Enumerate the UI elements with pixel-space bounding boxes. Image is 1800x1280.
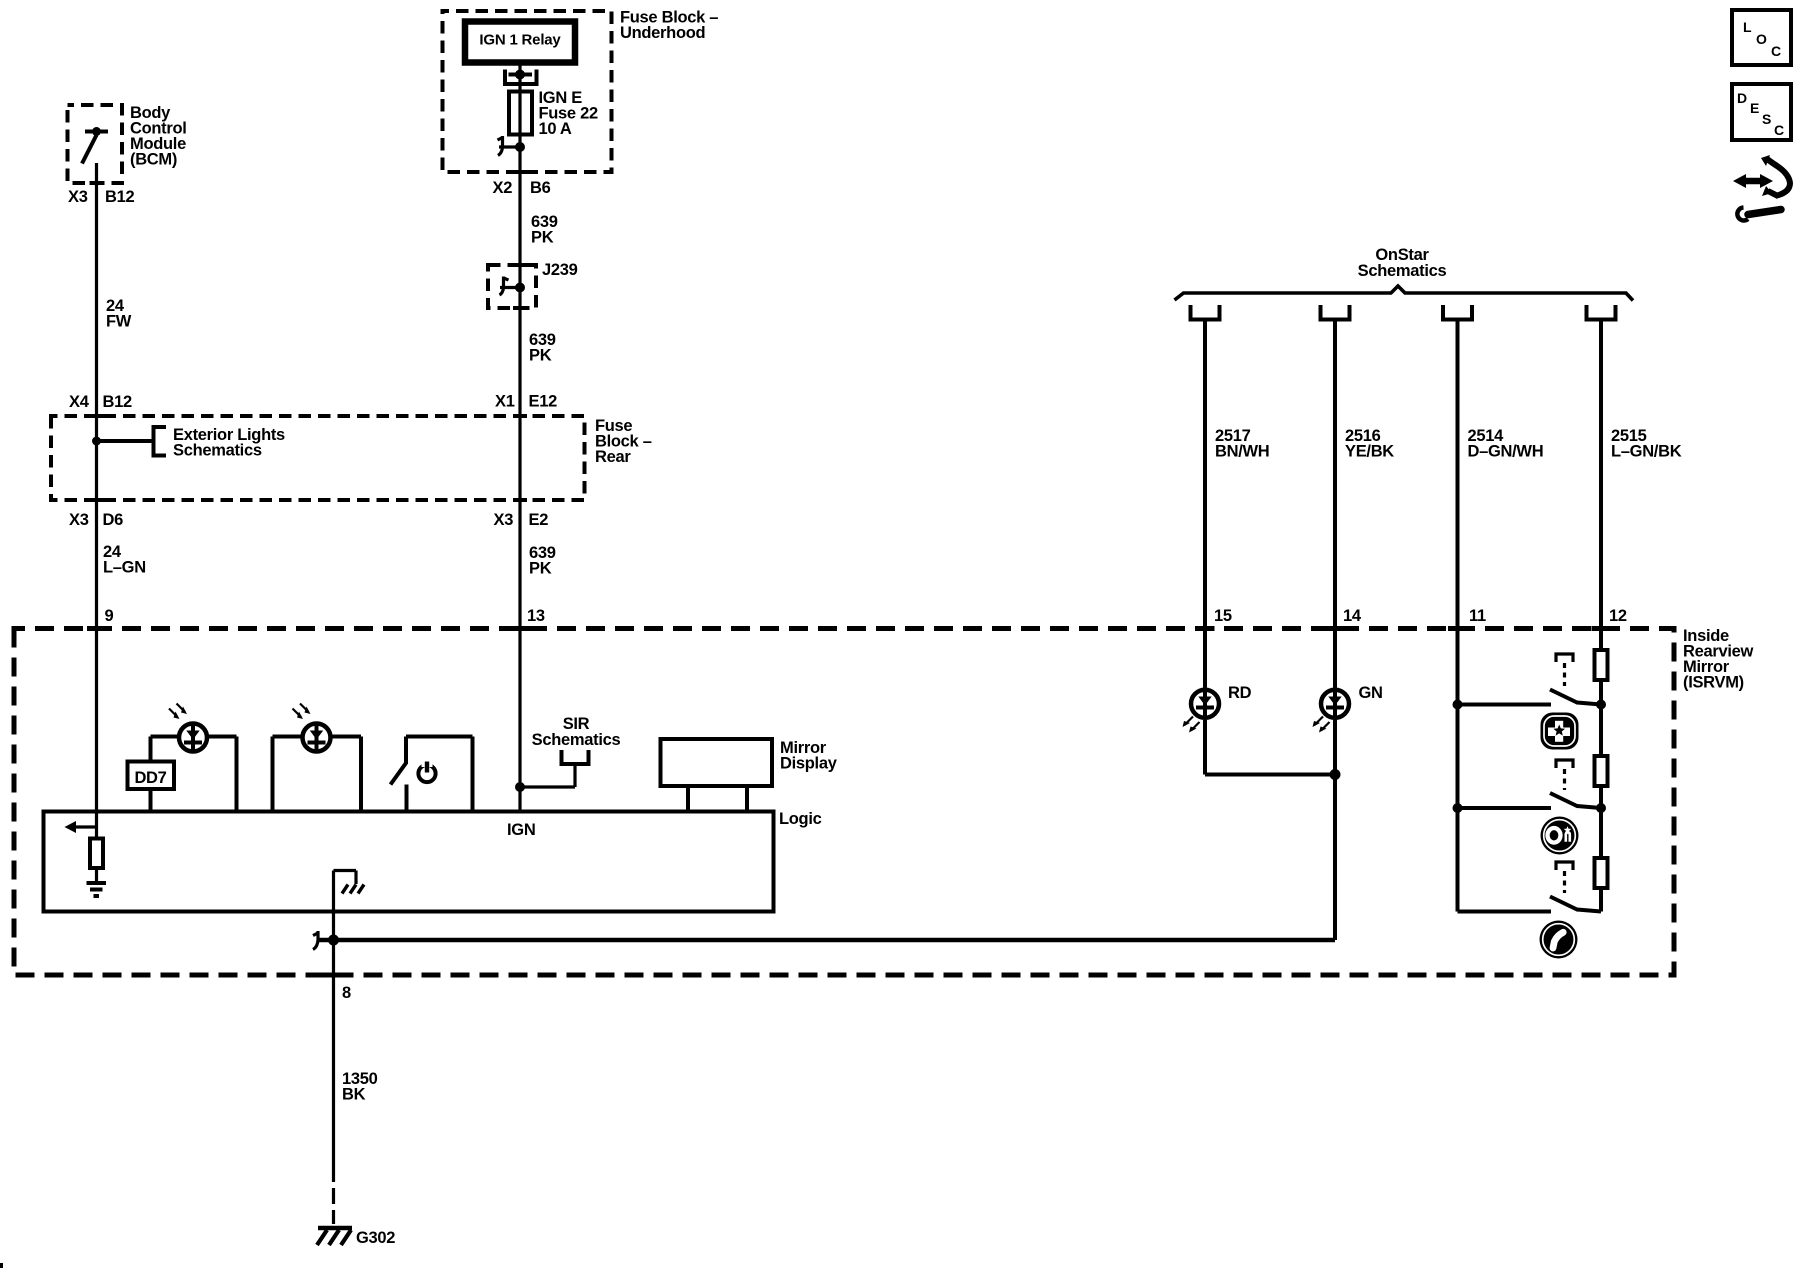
svg-text:Schematics: Schematics — [1358, 262, 1447, 280]
svg-text:BN/WH: BN/WH — [1215, 443, 1269, 461]
svg-text:G302: G302 — [356, 1229, 395, 1247]
svg-text:B12: B12 — [103, 393, 132, 411]
svg-text:L–GN: L–GN — [103, 559, 146, 577]
svg-text:11: 11 — [1469, 607, 1486, 625]
svg-text:X3: X3 — [68, 188, 88, 206]
svg-text:PK: PK — [529, 560, 552, 578]
svg-text:S: S — [1762, 111, 1771, 127]
svg-text:O: O — [1756, 31, 1767, 47]
svg-text:Rear: Rear — [595, 448, 631, 466]
svg-text:X3: X3 — [494, 511, 514, 529]
svg-text:BK: BK — [342, 1086, 366, 1104]
svg-text:12: 12 — [1609, 607, 1627, 625]
svg-text:D–GN/WH: D–GN/WH — [1468, 443, 1544, 461]
svg-text:PK: PK — [529, 347, 552, 365]
svg-text:(BCM): (BCM) — [130, 151, 177, 169]
svg-text:YE/BK: YE/BK — [1345, 443, 1394, 461]
svg-text:IGN 1 Relay: IGN 1 Relay — [479, 32, 561, 49]
svg-text:D: D — [1737, 90, 1747, 106]
svg-text:Schematics: Schematics — [532, 731, 621, 749]
svg-text:DD7: DD7 — [134, 769, 166, 787]
svg-text:9: 9 — [105, 607, 114, 625]
svg-text:C: C — [1771, 43, 1781, 59]
svg-text:B6: B6 — [530, 179, 551, 197]
svg-text:X2: X2 — [493, 179, 513, 197]
svg-text:Display: Display — [780, 755, 838, 773]
svg-text:PK: PK — [531, 229, 554, 247]
svg-text:X3: X3 — [69, 511, 89, 529]
svg-text:(ISRVM): (ISRVM) — [1683, 674, 1744, 692]
svg-text:J239: J239 — [542, 261, 578, 279]
svg-text:B12: B12 — [105, 188, 134, 206]
svg-text:GN: GN — [1359, 684, 1383, 702]
svg-text:13: 13 — [527, 607, 545, 625]
svg-text:Schematics: Schematics — [173, 442, 262, 460]
svg-text:C: C — [1774, 122, 1784, 138]
svg-text:E: E — [1750, 100, 1759, 116]
svg-text:E12: E12 — [529, 393, 558, 411]
svg-text:Logic: Logic — [779, 810, 822, 828]
svg-text:E2: E2 — [529, 511, 549, 529]
svg-text:14: 14 — [1343, 607, 1362, 625]
svg-text:X1: X1 — [495, 393, 515, 411]
svg-text:RD: RD — [1228, 684, 1252, 702]
svg-text:D6: D6 — [103, 511, 124, 529]
svg-text:Underhood: Underhood — [620, 24, 705, 42]
svg-text:IGN: IGN — [507, 821, 535, 839]
svg-text:15: 15 — [1214, 607, 1232, 625]
svg-text:L: L — [1743, 19, 1752, 35]
svg-text:L–GN/BK: L–GN/BK — [1611, 443, 1682, 461]
svg-text:10 A: 10 A — [539, 120, 572, 138]
svg-text:8: 8 — [342, 984, 351, 1002]
svg-text:X4: X4 — [69, 393, 90, 411]
svg-text:FW: FW — [106, 313, 132, 331]
